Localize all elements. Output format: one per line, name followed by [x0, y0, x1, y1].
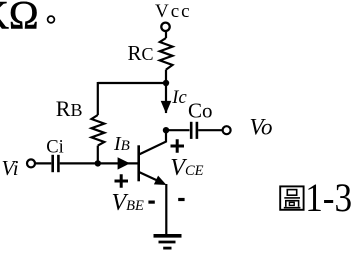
current arrow Ic [161, 101, 172, 114]
wire Vcc to RC [165, 31, 167, 38]
resistor RB [92, 115, 105, 146]
emitter arrowhead [154, 176, 167, 185]
wire collector node to Co [166, 129, 190, 131]
current arrow IB [118, 157, 130, 169]
svg-text:Vo: Vo [250, 115, 273, 140]
Vi terminal [27, 159, 35, 167]
transistor collector lead [140, 131, 167, 154]
wire Co to Vo terminal [198, 129, 222, 131]
wire RB bottom to base node [97, 146, 99, 164]
wire node1 to RB top (horizontal) [98, 82, 166, 84]
resistor RC [160, 38, 173, 70]
wire Vi to Ci [35, 162, 51, 164]
svg-text:Vi: Vi [2, 156, 19, 180]
Vo terminal [223, 126, 231, 134]
svg-text:RB: RB [56, 96, 83, 121]
svg-text:RC: RC [128, 41, 154, 65]
svg-text:Ci: Ci [46, 137, 63, 157]
base node dot [95, 160, 101, 166]
ground [154, 234, 182, 238]
svg-text:Co: Co [188, 98, 213, 122]
transistor Q1 base bar [137, 145, 140, 181]
minus sign after VBE [148, 201, 154, 204]
wire RC to node1 [165, 70, 167, 113]
capacitor Co [190, 122, 193, 139]
svg-text:Ic: Ic [171, 88, 187, 108]
Vcc terminal [161, 23, 169, 31]
capacitor Ci [51, 155, 54, 172]
transistor emitter lead [140, 172, 158, 180]
figure caption 圖 (drawn) [280, 186, 303, 209]
collector node dot [163, 127, 169, 133]
svg-text:Vcc: Vcc [155, 1, 192, 22]
svg-text:1-3: 1-3 [305, 176, 352, 221]
wire emitter to ground [165, 184, 167, 235]
plus sign (VCE) [171, 139, 185, 152]
minus sign below VCE [178, 198, 184, 201]
wire RB top vertical [97, 82, 99, 115]
node junction dot (RC / RB top) [163, 80, 169, 86]
ideographic full stop 。 [48, 16, 55, 23]
svg-text:ΚΩ: ΚΩ [0, 0, 39, 38]
wire Ci to base [60, 162, 139, 164]
plus sign (VBE) [115, 174, 129, 187]
